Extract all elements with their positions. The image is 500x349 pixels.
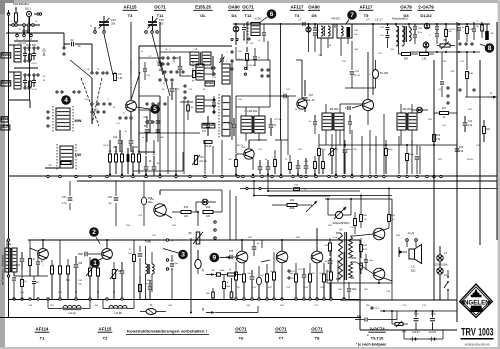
res 560 xyxy=(399,46,419,61)
mixer cap row2 xyxy=(156,110,161,133)
diode D2 circle xyxy=(423,41,429,52)
cap x14 y262 xyxy=(12,272,16,300)
coil bank box1 xyxy=(193,62,204,82)
labels mid xyxy=(228,147,372,163)
terminals near balloon xyxy=(56,91,80,93)
res col x324 xyxy=(323,263,326,299)
res 1k x361 xyxy=(360,195,368,229)
res col x236b xyxy=(235,262,238,299)
right rail 480 xyxy=(479,60,481,245)
mid bus wire 2 xyxy=(77,180,497,182)
osc transformer box xyxy=(190,48,211,65)
svg-text:(4): (4) xyxy=(171,240,174,242)
agc res x290 xyxy=(289,155,292,174)
osc res xyxy=(193,71,202,78)
out vertical x392 xyxy=(391,199,393,283)
reg res 220 xyxy=(172,206,198,218)
switch label AUT xyxy=(1,125,10,130)
cap col x252 xyxy=(250,270,255,299)
gang diagonal wire c xyxy=(131,72,140,100)
wire row y96 xyxy=(236,95,288,97)
svg-text:OC71: OC71 xyxy=(235,327,247,332)
svg-text:5n: 5n xyxy=(125,131,127,133)
terms right mid xyxy=(447,87,449,104)
cap cluster x120 y140 xyxy=(113,130,122,152)
T6 base cap xyxy=(226,251,236,259)
T4 head cap xyxy=(297,19,305,27)
pot volume 10k xyxy=(110,262,123,299)
svg-text:400µA(250Ω): 400µA(250Ω) xyxy=(333,221,350,225)
key symbol xyxy=(34,12,42,16)
svg-text:AF114: AF114 xyxy=(36,327,49,332)
svg-text:R17: R17 xyxy=(442,107,447,110)
svg-text:C25 10n: C25 10n xyxy=(248,65,256,67)
res x482 xyxy=(477,21,483,38)
diode D3 circle xyxy=(412,107,428,113)
osc lower caps xyxy=(170,82,180,100)
verticals right detector xyxy=(0,0,1,1)
long vertical x288 xyxy=(287,96,289,155)
terms y188 row xyxy=(246,187,261,189)
power vert x397 xyxy=(396,311,398,320)
wires under T12 xyxy=(236,40,268,60)
mid wire y199 xyxy=(325,198,392,200)
svg-text:KW2: KW2 xyxy=(206,81,214,85)
coil L-KW2 xyxy=(14,72,21,89)
detector D4 diode xyxy=(233,23,239,40)
svg-text:M 52610-003c 0901 49: M 52610-003c 0901 49 xyxy=(465,344,490,347)
osc mid row terms xyxy=(164,71,184,73)
ratio trafo top leads xyxy=(395,23,410,27)
trimmer terminals 2 xyxy=(145,30,159,33)
svg-text:5: 5 xyxy=(153,106,157,113)
meter bridge loop xyxy=(0,0,1,1)
vertical x467 y60 xyxy=(466,52,468,70)
det row wire y52 xyxy=(410,51,480,53)
tiny labels right2 xyxy=(428,109,481,161)
vertical x280 xyxy=(280,23,282,140)
terms y308 xyxy=(371,307,379,310)
pot with arrow mid xyxy=(192,155,207,165)
caps row y168 xyxy=(258,160,271,174)
bus terminals xyxy=(47,175,442,177)
wire reg down xyxy=(197,212,199,226)
res R21 56k xyxy=(66,259,71,299)
transistor T11b xyxy=(244,149,254,159)
right rail 434 xyxy=(433,60,435,300)
row wire y88 xyxy=(345,87,376,89)
svg-text:C23: C23 xyxy=(228,123,233,125)
svg-text:AF117: AF117 xyxy=(360,5,373,10)
label AF115/T2 xyxy=(98,327,113,341)
caps pair mid y134 xyxy=(142,116,165,142)
terms col mid xyxy=(288,270,296,280)
cap cluster x131 y140 xyxy=(129,112,139,152)
svg-text:D1,D2: D1,D2 xyxy=(420,13,432,18)
KW2 trimmer cluster xyxy=(23,74,39,89)
svg-text:9: 9 xyxy=(212,255,216,262)
tone coil label xyxy=(146,280,153,286)
trimmer terminals xyxy=(94,27,106,33)
svg-text:100µ: 100µ xyxy=(430,313,436,316)
elco 50-250 xyxy=(369,60,389,88)
am ift caps xyxy=(309,115,352,134)
vertical x254 y181 xyxy=(253,180,255,197)
iron core coil L11 xyxy=(63,305,81,309)
res 47 xyxy=(29,240,36,276)
svg-text:50–250: 50–250 xyxy=(380,72,389,75)
gang diagonal wire a xyxy=(70,60,92,78)
coil bank terms xyxy=(213,67,215,113)
svg-text:4: 4 xyxy=(64,97,68,104)
LW wire xyxy=(45,164,62,168)
coil bank box4 xyxy=(219,94,230,138)
row y140 wires xyxy=(249,139,288,141)
wire row y107 xyxy=(236,106,270,108)
cap col x304 xyxy=(302,268,307,299)
svg-text:1,5k: 1,5k xyxy=(118,77,123,80)
svg-text:C·: C· xyxy=(217,103,220,105)
svg-text:T9,T10: T9,T10 xyxy=(371,336,384,341)
speaker label xyxy=(411,265,416,273)
svg-text:L3–L7: L3–L7 xyxy=(375,18,383,22)
svg-text:25Ω: 25Ω xyxy=(411,269,416,273)
resistor bank r1 xyxy=(109,154,112,162)
mid bus wire xyxy=(9,175,498,177)
speaker wires xyxy=(0,0,1,1)
svg-text:C·: C· xyxy=(369,74,372,76)
elko x259 xyxy=(256,266,261,299)
lamp wires xyxy=(439,246,441,300)
svg-text:BU 1: BU 1 xyxy=(25,7,31,11)
svg-text:T11: T11 xyxy=(157,13,164,18)
svg-text:(7): (7) xyxy=(366,19,369,22)
res 100k x224 xyxy=(223,275,232,300)
terminal col x92 xyxy=(91,72,108,74)
cap at T4 base xyxy=(280,94,296,99)
mid right wires xyxy=(433,104,435,134)
svg-text:A: A xyxy=(490,91,492,95)
T12 terms xyxy=(231,38,261,42)
audio top bus wire xyxy=(28,239,360,241)
tone coil wires xyxy=(146,246,153,299)
transistor T6 xyxy=(236,251,248,263)
svg-text:OC71: OC71 xyxy=(311,327,323,332)
T5 collector wire xyxy=(367,52,369,125)
bus T1 wire xyxy=(0,0,1,1)
balloon L pointer xyxy=(61,95,71,105)
svg-text:T1: T1 xyxy=(40,336,45,341)
terminals y34 xyxy=(16,33,33,37)
wire x191 vertical xyxy=(190,238,192,313)
term left rail xyxy=(7,239,9,277)
balloon 5 xyxy=(136,104,160,114)
res col x274 xyxy=(273,252,276,299)
bank wires xyxy=(204,68,213,106)
res chain x247 xyxy=(246,47,249,70)
label under T1 xyxy=(42,264,45,267)
svg-text:C·: C· xyxy=(11,21,13,23)
meter label xyxy=(333,221,350,225)
svg-text:C46 50: C46 50 xyxy=(467,159,474,161)
driver caps y246 xyxy=(252,240,262,256)
svg-text:C22 10n: C22 10n xyxy=(274,119,282,121)
balloon 3 xyxy=(163,249,188,260)
balloon 6 xyxy=(259,9,276,23)
top bus wire xyxy=(233,23,490,25)
left vertical caption xyxy=(2,254,5,285)
battery b xyxy=(424,337,443,342)
power switch xyxy=(444,276,449,300)
wire y171 xyxy=(133,152,183,171)
L11 label xyxy=(68,312,76,315)
mid verticals right xyxy=(205,140,222,174)
terminal col x64 y48 xyxy=(63,44,65,55)
battery label b xyxy=(429,331,437,334)
svg-text:2-OA79: 2-OA79 xyxy=(418,5,434,10)
KW1 trimmer cluster xyxy=(23,44,39,62)
mid verticals2 xyxy=(362,114,420,174)
LW coil dashes xyxy=(57,144,76,170)
pin numbers xyxy=(16,38,32,41)
svg-text:6,8–22: 6,8–22 xyxy=(199,161,207,163)
svg-text:2k: 2k xyxy=(163,83,165,85)
svg-text:8: 8 xyxy=(488,45,492,52)
A series res xyxy=(211,270,227,276)
svg-text:T5: T5 xyxy=(364,13,369,18)
verticals y150 band xyxy=(281,124,352,174)
agc caps x298 x306 xyxy=(296,158,309,174)
block inner wires xyxy=(139,110,200,133)
power wire y319 xyxy=(380,319,397,321)
meter circle xyxy=(334,207,347,220)
tiny labels reg xyxy=(126,199,177,237)
svg-text:OC71: OC71 xyxy=(242,5,254,10)
diode D5 circle xyxy=(306,23,311,52)
ground terms audio xyxy=(235,298,345,300)
doc id text xyxy=(13,2,29,6)
balloon 9 xyxy=(210,253,233,263)
transistor T1 xyxy=(38,249,49,260)
balloon 1 xyxy=(90,258,103,268)
wire KW1 top xyxy=(14,40,38,42)
second coil L12 xyxy=(103,300,134,316)
mixer cap row xyxy=(144,110,153,133)
T1 emitter down xyxy=(0,0,1,1)
elco 100u a xyxy=(413,311,419,330)
T6-T7 coupling xyxy=(261,260,270,262)
svg-text:1M: 1M xyxy=(211,270,214,272)
junctions xyxy=(235,174,353,176)
svg-text:Konstruktionsänderungen vorb: Konstruktionsänderungen vorbehalten ! xyxy=(127,329,207,334)
svg-text:L11 (A): L11 (A) xyxy=(68,312,76,315)
osc box cap a xyxy=(143,62,147,80)
res col x296 xyxy=(295,263,298,299)
transistor T8 xyxy=(311,251,323,263)
svg-text:AF115: AF115 xyxy=(99,327,112,332)
svg-text:1: 1 xyxy=(93,260,97,267)
res x386 y150 xyxy=(385,140,394,174)
transistor T10 xyxy=(373,268,385,280)
svg-text:3: 3 xyxy=(181,252,185,259)
switch label MWLW xyxy=(202,123,215,128)
svg-text:C27: C27 xyxy=(309,94,314,97)
meter wires xyxy=(327,198,352,215)
ratio caps x387 xyxy=(380,23,390,48)
label AF117/T5 xyxy=(359,5,374,19)
left bus y33 xyxy=(6,32,64,34)
cap pair x146 xyxy=(144,156,152,176)
elco C53 x144 xyxy=(141,181,153,226)
footnote star xyxy=(326,279,330,282)
trafo leads xyxy=(321,24,348,56)
T10 collector xyxy=(384,278,392,281)
svg-text:C43: C43 xyxy=(459,147,464,149)
label AF117/T4 xyxy=(290,5,305,19)
svg-text:C13: C13 xyxy=(113,137,118,139)
reg terms col xyxy=(166,239,173,271)
res x417 y160 xyxy=(415,145,420,174)
osc terms col xyxy=(184,85,186,99)
svg-text:C3V: C3V xyxy=(159,18,164,22)
agc wire y60 xyxy=(236,59,270,61)
osc value texts xyxy=(149,49,198,91)
svg-text:1,5k: 1,5k xyxy=(422,58,427,61)
balloon 7 xyxy=(346,10,357,24)
cap x76 xyxy=(74,256,83,299)
tiny labels power xyxy=(366,305,427,337)
svg-text:25–47: 25–47 xyxy=(354,75,361,77)
left lower wires xyxy=(9,100,31,108)
svg-text:AUT: AUT xyxy=(2,125,10,129)
scan margin bottom xyxy=(0,347,500,349)
scan margin left xyxy=(0,0,5,349)
svg-text:21–42: 21–42 xyxy=(308,99,316,102)
label OA90/D4 xyxy=(228,5,240,19)
tiny labels gang xyxy=(84,69,116,111)
svg-text:C47: C47 xyxy=(62,196,67,199)
agc res x315 x323 xyxy=(314,150,325,174)
cap x459 xyxy=(457,23,465,40)
res col x310 xyxy=(309,263,312,299)
tone coil windings xyxy=(146,264,155,274)
svg-text:0,25: 0,25 xyxy=(459,151,464,153)
switch lines tone xyxy=(0,0,1,1)
svg-text:700p: 700p xyxy=(409,154,415,156)
lamp voltage xyxy=(434,264,447,267)
trimmer cap C1 xyxy=(99,16,117,30)
res rows y150 xyxy=(318,134,327,174)
svg-text:100µ: 100µ xyxy=(147,202,153,204)
left wires to bank xyxy=(180,76,193,102)
res 100 x134 xyxy=(128,240,135,299)
volume pot 25k xyxy=(437,39,455,49)
svg-text:OA90: OA90 xyxy=(308,5,320,10)
svg-text:AM-ZF1: AM-ZF1 xyxy=(329,108,339,111)
cap C51 x116 xyxy=(108,181,118,226)
wire x373 down xyxy=(372,23,374,95)
svg-text:50µ: 50µ xyxy=(357,316,362,318)
mixer out wires xyxy=(146,133,154,155)
wire T3 up xyxy=(130,75,132,100)
transistor T2 xyxy=(102,249,113,260)
svg-text:AM-ZF2: AM-ZF2 xyxy=(402,108,412,111)
svg-text:220V/0,05A: 220V/0,05A xyxy=(434,264,447,267)
bank wires up xyxy=(110,130,139,154)
res 2,7k xyxy=(328,134,339,174)
svg-text:100µ: 100µ xyxy=(413,313,419,316)
terminal rows mid xyxy=(91,103,111,105)
long vertical x270 xyxy=(269,60,271,107)
separator rule above labels xyxy=(0,317,361,319)
doc number xyxy=(465,344,490,347)
ground bus wire xyxy=(9,299,361,301)
scan margin top xyxy=(0,0,500,3)
svg-text:R12 1k: R12 1k xyxy=(237,145,243,147)
OC71 T11 lead xyxy=(160,22,170,96)
coil terminals MW xyxy=(47,111,49,127)
transistor T5 xyxy=(362,99,373,110)
svg-text:L10: L10 xyxy=(7,243,12,246)
mid wire y195 xyxy=(255,195,392,197)
vertical x247 top xyxy=(246,22,248,44)
svg-text:R4 1k: R4 1k xyxy=(103,145,108,147)
svg-text:100µ: 100µ xyxy=(351,289,357,291)
label AF115/T3 xyxy=(123,5,138,19)
svg-text:R9 4k: R9 4k xyxy=(237,59,242,61)
svg-text:C·: C· xyxy=(429,35,431,37)
svg-text:20k: 20k xyxy=(111,22,116,26)
svg-text:OL: OL xyxy=(200,13,206,18)
svg-text:OC71: OC71 xyxy=(154,5,166,10)
A resistor xyxy=(228,273,243,276)
svg-text:Ü1: Ü1 xyxy=(339,228,343,232)
cap x345 y150 xyxy=(343,140,353,174)
battery label a xyxy=(412,331,420,334)
volume pot big xyxy=(188,232,203,244)
label OC71/T11 xyxy=(154,5,166,19)
antenna terminal xyxy=(7,10,10,15)
label 5n xyxy=(90,25,92,28)
label OC71/T12 xyxy=(242,5,254,19)
am-zf1 label xyxy=(329,108,339,111)
feedback res 220k xyxy=(272,199,312,210)
vertical x29 xyxy=(29,17,31,100)
res x467 y75 xyxy=(466,72,474,98)
wire chain xyxy=(91,78,93,124)
caps x315 xyxy=(313,23,317,52)
svg-text:220k: 220k xyxy=(289,207,295,210)
label OC71/T7 xyxy=(275,327,287,341)
svg-text:AF115: AF115 xyxy=(124,5,137,10)
B wire marker xyxy=(202,308,215,314)
resistor bank r2 xyxy=(115,154,118,162)
cap near D4 xyxy=(242,24,249,40)
trimmer cap C3 xyxy=(148,16,165,30)
input wires row xyxy=(14,272,48,276)
svg-text:OA79: OA79 xyxy=(400,5,412,10)
resistor bank r5 xyxy=(132,154,135,162)
cap C87 x352 xyxy=(350,41,361,88)
label OC71/T8 xyxy=(311,327,323,341)
ratio label xyxy=(392,17,408,21)
res x213 y297 xyxy=(206,288,214,299)
svg-text:560: 560 xyxy=(404,58,409,61)
if row wire y145 xyxy=(319,144,457,146)
mixer t wires xyxy=(246,107,259,141)
T3 top lead xyxy=(130,22,132,75)
label OA79/D3 xyxy=(400,5,412,19)
